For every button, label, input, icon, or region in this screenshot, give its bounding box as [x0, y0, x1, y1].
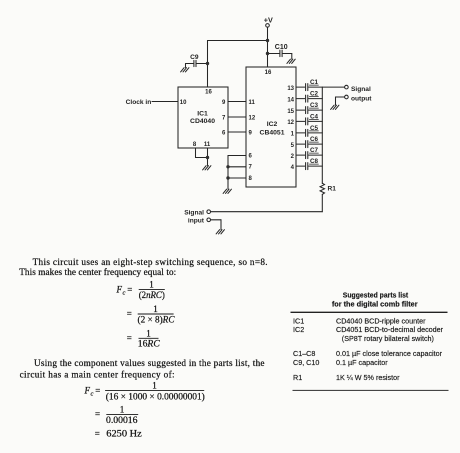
- svg-text:11: 11: [204, 142, 211, 148]
- svg-text:15: 15: [287, 109, 294, 115]
- svg-text:C7: C7: [310, 147, 319, 154]
- svg-text:9: 9: [222, 100, 226, 106]
- svg-text:C1–C8: C1–C8: [293, 349, 315, 358]
- svg-text:C9: C9: [190, 54, 199, 61]
- svg-text:0.01 µF close tolerance capaci: 0.01 µF close tolerance capacitor: [336, 349, 443, 358]
- svg-text:1: 1: [149, 280, 154, 290]
- svg-text:F: F: [84, 386, 91, 396]
- svg-text:13: 13: [287, 86, 294, 92]
- svg-text:(2nRC): (2nRC): [139, 290, 165, 300]
- svg-text:1: 1: [146, 328, 151, 338]
- svg-text:C3: C3: [310, 102, 319, 109]
- svg-text:14: 14: [287, 97, 294, 103]
- svg-text:9: 9: [249, 131, 253, 137]
- svg-text:R1: R1: [328, 186, 337, 193]
- svg-text:C1: C1: [310, 79, 319, 86]
- svg-text:CD4040: CD4040: [190, 118, 215, 125]
- svg-text:F: F: [116, 285, 123, 295]
- svg-text:=: =: [127, 285, 132, 295]
- svg-text:16: 16: [265, 70, 272, 76]
- svg-text:(SP8T rotary bilateral switch): (SP8T rotary bilateral switch): [342, 334, 434, 343]
- svg-text:6: 6: [249, 153, 253, 159]
- svg-text:12: 12: [249, 116, 256, 122]
- svg-text:=: =: [95, 386, 100, 396]
- svg-text:output: output: [351, 96, 372, 103]
- svg-text:circuit has a main center freq: circuit has a main center frequency of:: [20, 369, 175, 379]
- svg-text:Using the component values sug: Using the component values suggested in …: [34, 358, 265, 368]
- svg-text:8: 8: [193, 142, 197, 148]
- svg-text:0.1 µF capacitor: 0.1 µF capacitor: [336, 358, 388, 367]
- svg-text:2: 2: [291, 154, 295, 160]
- svg-text:C8: C8: [310, 158, 319, 165]
- svg-text:C5: C5: [310, 125, 319, 132]
- svg-text:Suggested parts list: Suggested parts list: [343, 290, 409, 299]
- svg-text:7: 7: [222, 116, 226, 122]
- svg-text:CD4051 BCD-to-decimal decoder: CD4051 BCD-to-decimal decoder: [336, 325, 444, 334]
- svg-text:16RC: 16RC: [138, 339, 161, 349]
- svg-text:IC2: IC2: [293, 325, 304, 334]
- svg-text:16: 16: [205, 89, 212, 95]
- svg-text:Signal: Signal: [184, 209, 204, 216]
- svg-text:Clock in: Clock in: [126, 99, 152, 106]
- svg-text:IC2: IC2: [267, 121, 278, 128]
- svg-text:for the digital comb filter: for the digital comb filter: [332, 300, 418, 309]
- svg-text:12: 12: [287, 120, 294, 126]
- svg-text:c: c: [91, 391, 94, 398]
- svg-text:This makes the center frequenc: This makes the center frequency equal to…: [19, 267, 176, 277]
- svg-text:=: =: [95, 409, 100, 419]
- svg-text:R1: R1: [293, 373, 302, 382]
- svg-text:1: 1: [153, 304, 158, 314]
- svg-text:6: 6: [222, 131, 226, 137]
- svg-text:C2: C2: [310, 91, 319, 98]
- svg-text:1: 1: [120, 405, 125, 415]
- svg-text:5: 5: [291, 143, 295, 149]
- svg-text:10: 10: [180, 100, 187, 106]
- svg-text:7: 7: [249, 165, 253, 171]
- svg-text:C6: C6: [310, 136, 319, 143]
- svg-text:=: =: [127, 333, 132, 343]
- svg-text:C9, C10: C9, C10: [293, 358, 319, 367]
- svg-text:C4: C4: [310, 113, 319, 120]
- svg-text:CB4051: CB4051: [260, 130, 285, 137]
- svg-text:(16 × 1000 × 0.00000001): (16 × 1000 × 0.00000001): [106, 391, 205, 401]
- svg-text:c: c: [123, 290, 126, 297]
- svg-text:11: 11: [249, 100, 256, 106]
- svg-text:=: =: [95, 429, 100, 439]
- svg-text:Signal: Signal: [351, 86, 371, 93]
- svg-text:C10: C10: [275, 44, 288, 51]
- svg-text:This circuit uses an eight-ste: This circuit uses an eight-step switchin…: [33, 257, 268, 267]
- svg-text:1: 1: [291, 132, 295, 138]
- svg-text:1: 1: [152, 381, 157, 391]
- svg-text:8: 8: [249, 176, 253, 182]
- svg-text:=: =: [127, 309, 132, 319]
- svg-text:1K ¼ W 5% resistor: 1K ¼ W 5% resistor: [336, 373, 400, 382]
- svg-text:input: input: [188, 218, 205, 225]
- svg-text:4: 4: [291, 165, 295, 171]
- svg-text:IC1: IC1: [197, 111, 208, 118]
- svg-text:(2 × 8)RC: (2 × 8)RC: [138, 314, 176, 324]
- svg-text:6250 Hz: 6250 Hz: [106, 429, 142, 439]
- svg-text:0.00016: 0.00016: [106, 415, 138, 425]
- svg-text:+V: +V: [264, 16, 273, 25]
